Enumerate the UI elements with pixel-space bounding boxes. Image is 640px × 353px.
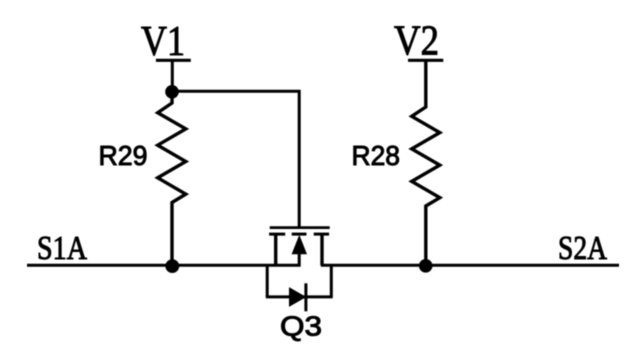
mosfet Q3 gate bar <box>270 226 330 229</box>
junction dot S1A node <box>165 259 179 273</box>
diode anode triangle (body diode of Q3) <box>289 287 306 307</box>
wire S1A (left horizontal net) <box>27 264 301 267</box>
wire S2A (right horizontal net) <box>321 264 619 267</box>
svg-text:Q3: Q3 <box>280 311 322 342</box>
mosfet Q3 source terminal wire <box>320 234 323 265</box>
mosfet Q3 channel segment right <box>314 233 329 236</box>
resistor R28 (with top and bottom wire stubs) <box>412 61 440 267</box>
power rail bar V2 <box>408 59 443 62</box>
diode cathode bar <box>304 283 307 311</box>
junction dot S2A node <box>419 259 433 273</box>
wire V1 stem <box>171 61 174 93</box>
svg-text:V2: V2 <box>394 19 439 65</box>
mosfet Q3 channel segment middle <box>292 233 307 236</box>
mosfet Q3 bulk arrow <box>292 235 307 255</box>
junction dot V1 node <box>165 85 179 99</box>
mosfet Q3 drain terminal wire <box>274 234 277 265</box>
svg-text:R28: R28 <box>352 140 401 171</box>
wire body-diode loop right <box>330 264 333 297</box>
mosfet Q3 channel segment left <box>269 233 285 236</box>
svg-text:S1A: S1A <box>37 230 87 267</box>
svg-text:V1: V1 <box>141 19 185 65</box>
wire body-diode loop left <box>266 264 269 297</box>
mosfet Q3 bulk stem wire <box>298 254 301 267</box>
svg-text:R29: R29 <box>99 140 148 171</box>
resistor R29 (with top and bottom wire stubs) <box>158 92 186 266</box>
wire body-diode loop bottom <box>266 295 333 298</box>
svg-text:S2A: S2A <box>558 230 607 267</box>
power rail bar V1 <box>156 59 191 62</box>
wire gate (from V1 node to gate of Q3) <box>172 91 299 226</box>
